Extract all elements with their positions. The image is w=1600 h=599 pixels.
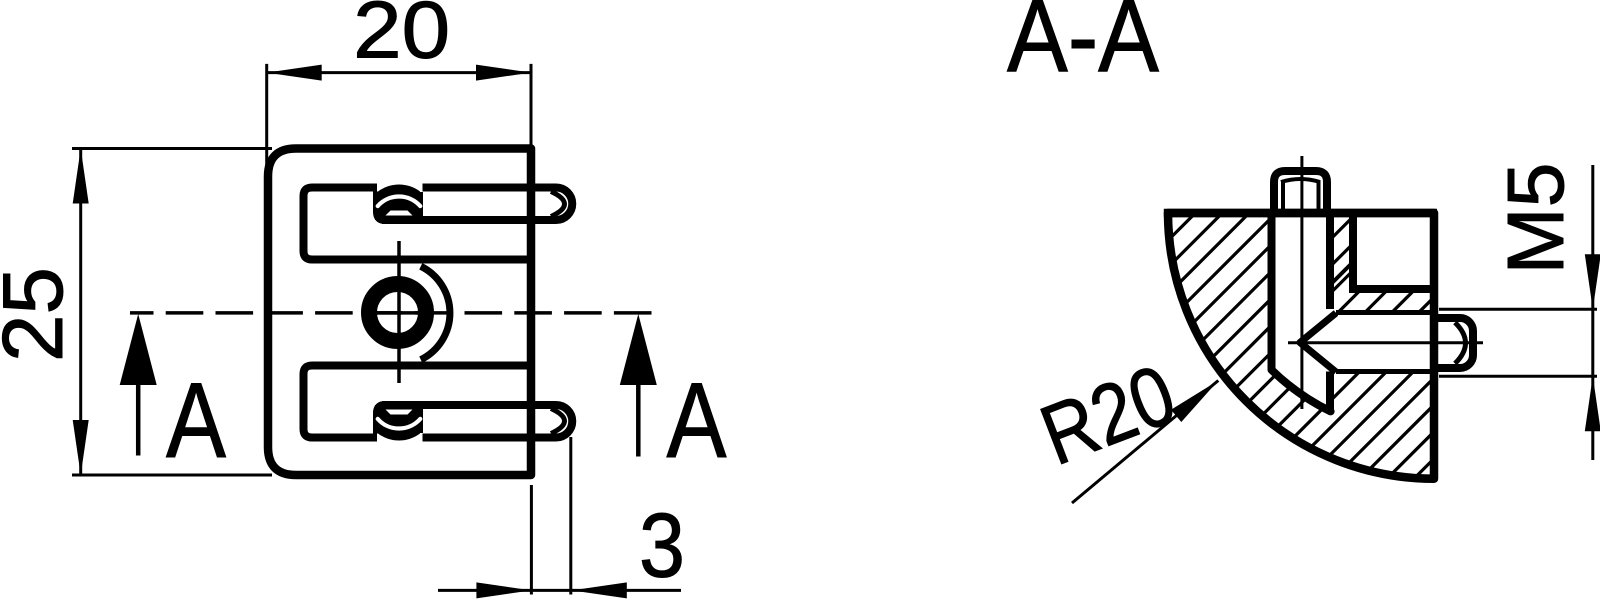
- svg-text:A-A: A-A: [1007, 0, 1159, 94]
- ball crescent highlight: [378, 196, 421, 206]
- slot right wall upper: [1326, 213, 1334, 309]
- crosshair horizontal inside hole: [377, 311, 421, 315]
- dimension 3 arrow right: [572, 582, 627, 598]
- M5 dimension line: [1591, 165, 1594, 460]
- dimension 20 extension lines: [267, 64, 531, 165]
- pin tip chamfer: [551, 192, 565, 217]
- protruding screw chamfer: [1455, 323, 1466, 364]
- dimension 20 arrow right: [476, 65, 531, 81]
- horizontal set screw top edge: [1336, 310, 1433, 315]
- slot right wall lower: [1326, 372, 1334, 411]
- vertical slot void (white): [1276, 213, 1327, 412]
- center hole (solid annulus): [369, 284, 426, 341]
- svg-text:3: 3: [639, 496, 685, 597]
- dimension 20 line: [267, 71, 531, 74]
- screw head inner lines: [1283, 180, 1319, 213]
- nut pocket bottom edge: [1349, 285, 1433, 293]
- bottom slot group (mirror of top slot): [304, 366, 573, 441]
- nut pocket void (white): [1353, 213, 1433, 289]
- pocket chamfer line: [1332, 264, 1351, 283]
- R20 leader arrow: [1171, 381, 1218, 423]
- horizontal set screw bottom edge: [1336, 369, 1433, 374]
- protruding screw end: [1437, 318, 1473, 368]
- nut pocket left edge: [1349, 217, 1357, 289]
- section centerline vertical: [1300, 156, 1303, 409]
- dimension 25 arrow bottom: [73, 420, 89, 475]
- dimension 3 line: [438, 589, 681, 592]
- section centerline horizontal: [1288, 341, 1483, 344]
- section arrow left: [136, 385, 141, 456]
- slot bottom inner arc: [1272, 370, 1331, 412]
- top slot group: [304, 185, 573, 260]
- body outline: [268, 149, 531, 476]
- svg-text:A: A: [166, 360, 227, 480]
- ball flat highlight: [386, 211, 413, 216]
- pocket block fill: [375, 192, 423, 220]
- part top edge: [1164, 209, 1437, 218]
- boss arc around hole: [421, 266, 450, 359]
- slot outline: [304, 188, 536, 260]
- centerline horizontal (dashed): [130, 311, 658, 315]
- dimension 25 line: [79, 149, 82, 476]
- vertical screw head: [1274, 171, 1327, 213]
- M5 arrow upper: [1585, 254, 1600, 309]
- ball dome cap: [378, 185, 420, 219]
- centerline vertical through hole: [397, 241, 401, 383]
- horizontal set screw tip cone: [1300, 313, 1336, 372]
- svg-text:25: 25: [0, 267, 81, 362]
- dimension 3 extension lines: [531, 437, 570, 595]
- horizontal screw void (white): [1300, 313, 1433, 372]
- dimension 20 arrow left: [267, 65, 322, 81]
- R20 leader line: [1072, 381, 1218, 504]
- hatching of sectioned body: [782, 100, 1600, 599]
- dimension 25 extension lines: [72, 149, 272, 476]
- slot left wall: [1268, 213, 1276, 370]
- M5 extension lines: [1439, 309, 1597, 376]
- svg-text:A: A: [667, 360, 728, 480]
- pin (set screw shank): [382, 188, 572, 221]
- body outline (quarter round): [1168, 213, 1434, 479]
- M5 arrow lower: [1585, 376, 1600, 431]
- dimension 3 arrow left: [476, 582, 531, 598]
- svg-text:M5: M5: [1491, 163, 1580, 275]
- dimension 25 arrow top: [73, 149, 89, 204]
- svg-text:20: 20: [353, 0, 450, 75]
- section arrow right: [636, 385, 641, 457]
- screw head top arc: [1281, 179, 1320, 182]
- pocket left wall: [377, 192, 385, 221]
